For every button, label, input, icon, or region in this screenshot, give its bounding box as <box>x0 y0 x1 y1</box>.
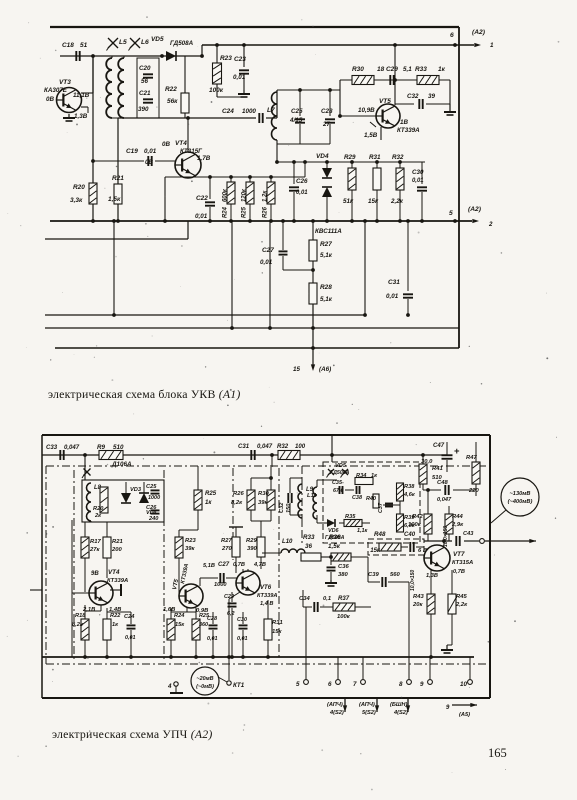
svg-text:1,5к: 1,5к <box>108 196 121 203</box>
svg-text:C48: C48 <box>437 480 448 486</box>
svg-text:R17: R17 <box>90 539 101 545</box>
svg-text:15к: 15к <box>370 548 381 554</box>
svg-text:165: 165 <box>488 746 507 760</box>
svg-text:0,01: 0,01 <box>260 259 273 266</box>
svg-text:8,2к: 8,2к <box>231 500 243 506</box>
svg-text:КТ315Г: КТ315Г <box>180 148 203 155</box>
svg-text:10,9В: 10,9В <box>358 107 375 114</box>
svg-text:0В: 0В <box>162 141 170 148</box>
svg-text:10,0×150: 10,0×150 <box>410 570 416 591</box>
svg-text:R45: R45 <box>456 594 467 600</box>
svg-text:18: 18 <box>377 66 385 73</box>
svg-text:R42: R42 <box>412 514 423 520</box>
svg-text:0,7В: 0,7В <box>453 569 465 575</box>
svg-text:R29: R29 <box>246 538 257 544</box>
svg-text:56к: 56к <box>167 98 178 105</box>
svg-text:2,2к: 2,2к <box>390 198 404 205</box>
svg-text:30,0: 30,0 <box>421 459 433 465</box>
svg-text:VT6: VT6 <box>260 585 272 591</box>
svg-text:39: 39 <box>428 93 435 100</box>
svg-text:R34: R34 <box>356 473 367 479</box>
svg-text:R33: R33 <box>415 66 427 73</box>
svg-text:C29: C29 <box>386 66 398 73</box>
svg-text:3,3к: 3,3к <box>70 197 83 204</box>
svg-text:0,1: 0,1 <box>323 596 331 602</box>
svg-text:VD5: VD5 <box>335 463 347 469</box>
svg-text:C31: C31 <box>238 444 250 450</box>
svg-text:0,7В: 0,7В <box>233 562 245 568</box>
svg-text:R26: R26 <box>263 206 269 218</box>
svg-text:6,2: 6,2 <box>227 611 235 617</box>
svg-text:5,1к: 5,1к <box>320 252 333 259</box>
svg-text:C43: C43 <box>463 531 474 537</box>
svg-text:C23: C23 <box>234 56 246 63</box>
svg-text:270: 270 <box>221 546 233 552</box>
svg-text:R30: R30 <box>258 491 269 497</box>
svg-text:4/15: 4/15 <box>289 117 303 124</box>
svg-text:5(S2): 5(S2) <box>362 710 376 716</box>
svg-text:R35: R35 <box>345 514 356 520</box>
svg-text:VT7: VT7 <box>453 551 465 558</box>
svg-text:1к: 1к <box>112 622 119 628</box>
svg-text:+: + <box>454 446 460 457</box>
svg-text:R23: R23 <box>220 55 232 62</box>
svg-text:C21: C21 <box>139 90 151 97</box>
svg-text:150: 150 <box>286 503 292 513</box>
svg-text:100: 100 <box>295 444 306 450</box>
svg-text:C28: C28 <box>207 616 218 622</box>
svg-text:(~0мВ): (~0мВ) <box>196 684 214 690</box>
svg-text:C30: C30 <box>237 617 247 623</box>
svg-text:1000: 1000 <box>148 495 160 501</box>
svg-text:C20: C20 <box>139 65 151 72</box>
svg-text:1,3В: 1,3В <box>426 573 438 579</box>
svg-text:4,7В: 4,7В <box>253 562 266 568</box>
svg-text:~130мВ: ~130мВ <box>510 491 531 497</box>
svg-text:VT5: VT5 <box>379 98 391 105</box>
svg-text:КА307Е: КА307Е <box>44 87 68 94</box>
svg-text:0,01: 0,01 <box>125 635 136 641</box>
svg-text:4: 4 <box>167 683 172 690</box>
svg-text:Д106А: Д106А <box>111 461 132 468</box>
svg-text:4(S2): 4(S2) <box>329 710 344 716</box>
svg-text:R44: R44 <box>452 514 463 520</box>
svg-text:R25: R25 <box>205 491 217 497</box>
svg-text:электрическая схема УПЧ (А2: электрическая схема УПЧ (А2) <box>52 727 212 741</box>
svg-text:VD5: VD5 <box>151 36 164 43</box>
svg-text:2,9к: 2,9к <box>451 522 464 528</box>
svg-text:8,2к: 8,2к <box>72 622 84 628</box>
svg-text:R32: R32 <box>277 444 289 450</box>
svg-text:C24: C24 <box>222 108 234 115</box>
svg-text:100к: 100к <box>408 522 422 528</box>
svg-text:R31: R31 <box>369 154 381 161</box>
svg-text:380: 380 <box>338 572 349 578</box>
svg-text:R43: R43 <box>413 594 424 600</box>
svg-text:0,01: 0,01 <box>207 636 218 642</box>
svg-text:C37: C37 <box>378 502 384 513</box>
svg-text:5: 5 <box>296 681 300 688</box>
svg-text:R37: R37 <box>338 596 350 602</box>
svg-text:220: 220 <box>468 488 480 494</box>
svg-text:КТ315А: КТ315А <box>452 560 473 566</box>
svg-text:6 В: 6 В <box>418 548 427 554</box>
svg-text:0В: 0В <box>46 96 54 103</box>
svg-text:7: 7 <box>353 681 357 688</box>
svg-text:КТ339А: КТ339А <box>257 593 277 599</box>
svg-text:1,7В: 1,7В <box>197 155 211 162</box>
svg-text:1,4 В: 1,4 В <box>260 601 273 607</box>
svg-text:C24: C24 <box>124 614 135 620</box>
svg-text:9В: 9В <box>91 571 99 577</box>
svg-text:5: 5 <box>449 210 453 217</box>
svg-text:C22: C22 <box>196 195 208 202</box>
svg-text:C25: C25 <box>146 484 157 490</box>
svg-text:390: 390 <box>247 546 258 552</box>
svg-text:R33: R33 <box>303 534 315 541</box>
svg-text:C31: C31 <box>388 279 400 286</box>
svg-text:C33: C33 <box>46 445 58 451</box>
svg-text:VT4: VT4 <box>108 569 120 576</box>
svg-text:1к: 1к <box>205 500 212 506</box>
svg-text:ГД508А: ГД508А <box>325 535 345 541</box>
svg-text:1,5к: 1,5к <box>328 543 341 550</box>
svg-text:R22: R22 <box>110 613 121 619</box>
svg-text:L7: L7 <box>267 107 275 114</box>
svg-text:R30: R30 <box>352 66 364 73</box>
svg-text:L11: L11 <box>307 493 317 499</box>
svg-text:100к: 100к <box>337 614 351 620</box>
svg-text:(БШН): (БШН) <box>390 702 407 708</box>
svg-text:5,1к: 5,1к <box>320 296 333 303</box>
svg-text:КТ339А: КТ339А <box>397 127 420 134</box>
svg-text:0,047: 0,047 <box>437 497 452 503</box>
svg-text:67,0: 67,0 <box>333 488 344 494</box>
svg-text:R22: R22 <box>165 86 177 93</box>
svg-text:(А6): (А6) <box>319 366 331 373</box>
svg-text:0,01: 0,01 <box>386 293 399 300</box>
svg-text:электрическая схема блока У: электрическая схема блока УКВ (А1) <box>48 387 240 401</box>
svg-text:C30: C30 <box>412 169 424 176</box>
svg-text:2: 2 <box>488 221 493 228</box>
svg-text:15: 15 <box>293 366 300 373</box>
svg-text:1: 1 <box>490 42 494 49</box>
svg-text:1к: 1к <box>371 473 378 479</box>
svg-text:КВС111А: КВС111А <box>315 228 342 235</box>
svg-text:R23: R23 <box>185 538 196 544</box>
svg-text:VD6: VD6 <box>328 528 340 534</box>
svg-text:C26: C26 <box>296 178 308 185</box>
svg-text:R27: R27 <box>221 538 232 544</box>
svg-text:(~400мВ): (~400мВ) <box>508 499 533 505</box>
svg-text:510: 510 <box>113 444 124 451</box>
svg-text:1,3В: 1,3В <box>74 113 88 120</box>
svg-text:27к: 27к <box>89 547 101 553</box>
svg-text:R24: R24 <box>223 206 229 218</box>
svg-text:0,01: 0,01 <box>237 636 248 642</box>
svg-text:10: 10 <box>460 681 467 688</box>
svg-text:1,2к: 1,2к <box>263 190 269 202</box>
svg-text:39к: 39к <box>185 546 196 552</box>
svg-text:C47: C47 <box>433 443 445 449</box>
svg-text:ГД508А: ГД508А <box>330 470 350 476</box>
svg-text:600к: 600к <box>223 188 229 202</box>
svg-text:C25: C25 <box>291 108 303 115</box>
svg-text:R28: R28 <box>320 284 332 291</box>
svg-text:L10: L10 <box>282 539 293 545</box>
svg-text:1,1к: 1,1к <box>357 528 368 534</box>
svg-text:R48: R48 <box>374 531 386 538</box>
svg-text:8: 8 <box>399 681 403 688</box>
svg-text:R32: R32 <box>392 154 404 161</box>
svg-text:200: 200 <box>111 547 123 553</box>
svg-text:0,01: 0,01 <box>412 178 424 184</box>
svg-text:0,01: 0,01 <box>195 213 208 220</box>
svg-text:R27: R27 <box>320 241 332 248</box>
svg-text:C34: C34 <box>299 596 310 602</box>
svg-text:5,1: 5,1 <box>403 66 412 73</box>
svg-text:C36: C36 <box>338 564 349 570</box>
svg-text:9: 9 <box>420 681 424 688</box>
svg-text:R38: R38 <box>404 484 415 490</box>
svg-text:1к: 1к <box>438 66 446 73</box>
svg-text:VD4: VD4 <box>316 153 329 160</box>
svg-text:1В: 1В <box>400 119 408 126</box>
svg-text:VD3: VD3 <box>130 487 142 493</box>
svg-text:C28: C28 <box>321 108 333 115</box>
svg-text:15к: 15к <box>175 622 185 628</box>
svg-text:0,047: 0,047 <box>64 445 80 451</box>
svg-text:R9: R9 <box>97 444 106 451</box>
svg-text:15к: 15к <box>368 198 379 205</box>
svg-text:C39: C39 <box>368 572 379 578</box>
svg-text:R25: R25 <box>242 206 248 218</box>
svg-text:R29: R29 <box>344 154 356 161</box>
svg-text:5,1В: 5,1В <box>203 563 215 569</box>
svg-text:R40: R40 <box>366 496 376 502</box>
svg-text:100к: 100к <box>209 87 224 94</box>
svg-text:C18: C18 <box>62 42 74 49</box>
svg-text:0,01: 0,01 <box>296 190 308 196</box>
svg-text:2к: 2к <box>94 513 102 519</box>
svg-text:VT4: VT4 <box>175 140 187 147</box>
svg-text:C32: C32 <box>407 93 419 100</box>
svg-text:36: 36 <box>305 543 312 550</box>
svg-text:4(S2): 4(S2) <box>393 710 408 716</box>
svg-text:R31: R31 <box>272 620 283 626</box>
svg-text:(А2): (А2) <box>468 206 482 213</box>
svg-text:C27: C27 <box>218 562 230 568</box>
svg-text:(А5): (А5) <box>459 712 470 718</box>
svg-text:R24: R24 <box>174 613 185 619</box>
svg-text:6: 6 <box>450 32 454 39</box>
svg-text:51: 51 <box>80 42 88 49</box>
svg-text:C38: C38 <box>352 495 363 501</box>
svg-text:390: 390 <box>138 106 149 113</box>
svg-text:C32: C32 <box>279 502 285 513</box>
svg-text:C26: C26 <box>146 505 157 511</box>
svg-text:(А2): (А2) <box>472 29 486 36</box>
svg-text:R20: R20 <box>73 184 85 191</box>
svg-text:56: 56 <box>141 78 148 85</box>
svg-text:0,01: 0,01 <box>144 148 157 155</box>
svg-text:R21: R21 <box>112 175 124 182</box>
svg-text:L5: L5 <box>119 39 127 46</box>
svg-text:560: 560 <box>390 572 401 578</box>
svg-text:VT3: VT3 <box>59 79 71 86</box>
svg-text:51к: 51к <box>343 198 354 205</box>
svg-text:R41: R41 <box>432 466 443 472</box>
svg-text:КТ339А: КТ339А <box>180 563 190 584</box>
svg-text:1000: 1000 <box>242 108 256 115</box>
svg-text:(АПЧ): (АПЧ) <box>327 702 343 708</box>
svg-text:9: 9 <box>446 705 450 711</box>
svg-text:C19: C19 <box>126 148 138 155</box>
svg-text:1,5В: 1,5В <box>364 132 378 139</box>
svg-text:КТ1: КТ1 <box>233 682 245 689</box>
svg-text:C27: C27 <box>262 247 274 254</box>
svg-text:4,6к: 4,6к <box>403 492 416 498</box>
svg-text:L6: L6 <box>141 39 149 46</box>
svg-text:R21: R21 <box>112 539 123 545</box>
svg-text:39к: 39к <box>258 500 269 506</box>
svg-text:6: 6 <box>328 681 332 688</box>
svg-text:120к: 120к <box>242 188 248 202</box>
svg-text:20к: 20к <box>412 602 424 608</box>
svg-text:R20: R20 <box>93 506 104 512</box>
svg-text:0,047: 0,047 <box>257 444 273 450</box>
svg-text:R26: R26 <box>233 491 244 497</box>
svg-text:~20мВ: ~20мВ <box>196 676 213 682</box>
svg-text:2,2к: 2,2к <box>455 602 468 608</box>
svg-text:360: 360 <box>199 622 208 628</box>
svg-text:C40: C40 <box>404 532 416 538</box>
svg-text:КТ339А: КТ339А <box>107 578 128 584</box>
svg-text:C35-: C35- <box>332 480 344 486</box>
svg-text:ГД508А: ГД508А <box>170 40 194 47</box>
svg-text:15к: 15к <box>272 629 283 635</box>
svg-text:27: 27 <box>322 121 330 128</box>
svg-text:(АПЧ): (АПЧ) <box>359 702 375 708</box>
svg-text:240: 240 <box>148 516 159 522</box>
